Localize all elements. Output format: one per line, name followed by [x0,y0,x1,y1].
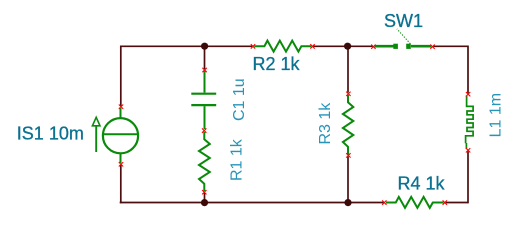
svg-text:SW1: SW1 [384,11,423,31]
svg-text:IS1 10m: IS1 10m [17,124,84,144]
svg-text:R4 1k: R4 1k [398,174,446,194]
svg-text:L1 1m: L1 1m [488,93,505,137]
svg-text:C1 1u: C1 1u [231,78,248,121]
svg-text:R2 1k: R2 1k [253,54,301,74]
svg-text:R1 1k: R1 1k [229,138,246,181]
svg-text:R3 1k: R3 1k [317,102,334,145]
